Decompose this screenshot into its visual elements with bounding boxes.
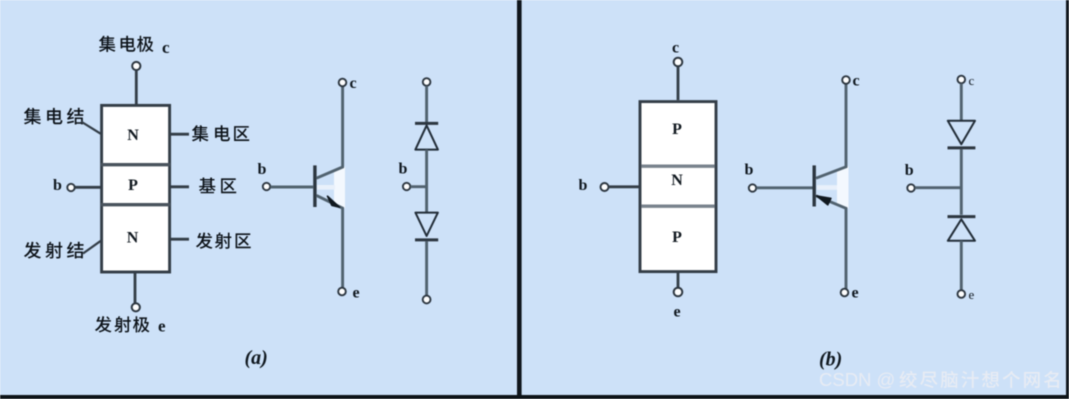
region letter N base (b) — [671, 172, 683, 189]
node top terminal of diode model a — [423, 78, 431, 86]
region letter P base region — [128, 177, 138, 194]
node collector terminal c of Q2 — [842, 76, 850, 84]
node base terminal of diode model b — [907, 184, 914, 191]
label c of Q1 — [350, 75, 357, 92]
diode D3 collector junction (cathode bar down) — [948, 121, 976, 148]
node collector terminal c (structure a) — [132, 62, 140, 70]
svg-text:(a): (a) — [245, 347, 268, 369]
label emitter region 发射区 — [196, 232, 251, 248]
wire collector lead (structure a) — [135, 71, 138, 105]
svg-text:b: b — [258, 161, 267, 178]
node base terminal of diode model a — [403, 183, 410, 190]
svg-text:e: e — [158, 317, 166, 336]
wire bottom of diode model b — [960, 241, 963, 290]
transistor Q1 base bar — [313, 165, 316, 207]
node emitter terminal e of Q2 — [841, 289, 849, 297]
node top terminal of diode model b — [958, 76, 966, 84]
NPN structure box (three regions) — [102, 105, 170, 272]
diode D4 emitter junction (cathode bar up) — [948, 217, 976, 241]
wire base of Q1 — [270, 186, 313, 189]
label c of diode model b — [969, 73, 975, 88]
svg-text:e: e — [353, 285, 360, 302]
svg-text:b: b — [745, 161, 754, 178]
emitter junction divider (a) — [101, 203, 170, 206]
label e of Q2 — [852, 285, 859, 302]
svg-text:e: e — [969, 287, 975, 302]
svg-text:c: c — [969, 73, 975, 88]
svg-text:N: N — [127, 230, 139, 247]
wire collector lead (structure b) — [677, 67, 680, 101]
wire base of diode model b — [915, 186, 961, 189]
wire emitter arm of Q1 with arrow — [316, 195, 342, 287]
svg-text:P: P — [672, 229, 682, 246]
wire stub to emitter region label — [171, 238, 189, 241]
collector junction divider (b) — [641, 164, 714, 167]
svg-text:c: c — [162, 38, 170, 57]
label e of diode model b — [969, 287, 975, 302]
wire middle of diode model b — [960, 150, 963, 215]
wire bottom of diode model a — [425, 241, 428, 295]
svg-text:e: e — [852, 285, 859, 302]
PNP structure box (three regions) — [640, 102, 716, 272]
wire top of diode model b — [960, 84, 963, 121]
label emitter electrode 发射极 e — [95, 316, 166, 335]
label c of structure b — [672, 40, 679, 57]
node bottom terminal of diode model a — [423, 296, 431, 304]
wire collector arm of Q1 — [316, 87, 342, 179]
label collector junction 集电结 with leader — [24, 108, 101, 134]
svg-text:P: P — [128, 177, 138, 194]
wire stub to collector region label — [171, 133, 189, 136]
wire base of Q2 — [756, 186, 812, 189]
node emitter terminal e (structure a) — [132, 303, 140, 311]
wire base lead (structure a) — [75, 186, 102, 189]
label base region 基区 — [199, 178, 236, 194]
wire middle of diode model a — [425, 150, 428, 213]
label b of diode model b — [905, 162, 914, 179]
watermark CSDN @绞尽脑汁想个网名 — [819, 369, 1059, 390]
node collector terminal of structure b — [674, 58, 683, 67]
label c of Q2 — [853, 73, 860, 90]
wire emitter lead (structure b) — [677, 272, 680, 288]
diode D2 emitter junction (cathode bar down) — [415, 213, 438, 240]
region letter P collector (b) — [672, 121, 682, 138]
label collector region 集电区 — [192, 125, 249, 141]
wire base of diode model a — [411, 185, 428, 188]
label emitter junction 发射结 with leader — [24, 241, 101, 259]
right border line — [1066, 0, 1069, 399]
caption (b) — [819, 349, 842, 371]
wire collector arm of Q2 — [816, 84, 846, 178]
svg-text:N: N — [671, 172, 683, 189]
svg-text:N: N — [127, 127, 139, 144]
node emitter terminal of structure b — [674, 288, 683, 297]
svg-text:c: c — [350, 75, 357, 92]
svg-text:c: c — [853, 73, 860, 90]
label b of Q2 — [745, 161, 754, 178]
label b of diode model a — [399, 161, 408, 178]
label b and base terminal node (structure a) — [53, 177, 75, 194]
label b of structure b — [579, 177, 588, 194]
caption (a) — [245, 347, 268, 369]
label b of Q1 — [258, 161, 267, 178]
wire base lead (structure b) — [609, 185, 640, 188]
region letter P emitter (b) — [672, 229, 682, 246]
svg-text:e: e — [674, 304, 681, 321]
transistor Q2 pale base band — [817, 185, 837, 190]
svg-text:P: P — [672, 121, 682, 138]
svg-text:b: b — [399, 161, 408, 178]
svg-text:(b): (b) — [819, 349, 842, 371]
label e of structure b — [674, 304, 681, 321]
wire top of diode model a — [425, 86, 428, 122]
svg-text:c: c — [672, 40, 679, 57]
svg-text:b: b — [53, 177, 62, 194]
region letter N collector region — [127, 127, 139, 144]
wire emitter lead (structure a) — [134, 272, 137, 303]
transistor Q1 pale base band — [317, 185, 335, 190]
region letter N emitter region — [127, 230, 139, 247]
wire emitter arm of Q2 with inward arrow — [816, 196, 846, 289]
bottom border line — [0, 395, 1069, 399]
node bottom terminal of diode model b — [958, 290, 966, 298]
svg-text:b: b — [905, 162, 914, 179]
transistor Q1 NPN symbol: pale body fill — [334, 167, 345, 209]
emitter junction divider (b) — [641, 204, 714, 207]
node emitter terminal e of Q1 — [338, 288, 346, 296]
wire stub to base region label — [171, 185, 189, 188]
diode D1 collector junction (cathode bar up) — [415, 123, 438, 149]
svg-text:b: b — [579, 177, 588, 194]
node collector terminal c of Q1 — [339, 79, 347, 87]
panel divider line — [517, 0, 522, 399]
label e of Q1 — [353, 285, 360, 302]
transistor Q2 base bar — [813, 165, 816, 206]
collector junction divider (a) — [101, 163, 170, 166]
label collector electrode 集电极 c — [99, 36, 170, 57]
node base terminal of Q1 — [263, 183, 270, 190]
node base terminal of Q2 — [749, 184, 756, 191]
node base terminal of structure b — [601, 183, 609, 191]
transistor Q2 PNP symbol: pale body fill — [837, 166, 849, 208]
svg-text:CSDN @: CSDN @ — [819, 369, 895, 390]
